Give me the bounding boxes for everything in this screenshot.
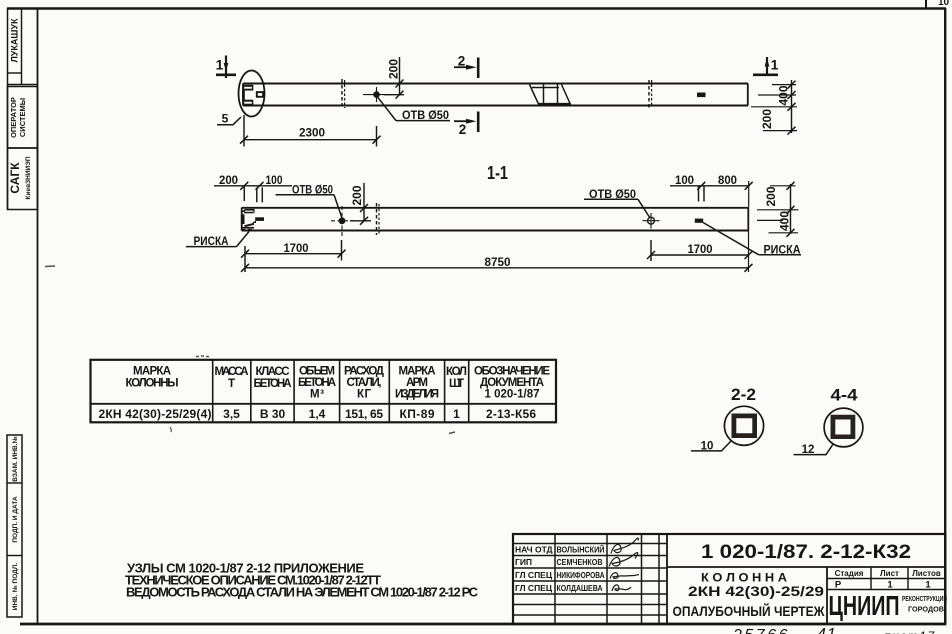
svg-text:25766: 25766 xyxy=(732,627,790,634)
svg-text:1700: 1700 xyxy=(688,242,713,256)
svg-text:БЕТОНА: БЕТОНА xyxy=(254,378,292,390)
svg-text:КиевЗНИИЭП: КиевЗНИИЭП xyxy=(25,156,32,199)
svg-text:ИНВ. № ПОДЛ.: ИНВ. № ПОДЛ. xyxy=(12,563,19,611)
svg-text:41: 41 xyxy=(817,626,837,634)
svg-text:СТАЛИ,: СТАЛИ, xyxy=(347,377,382,389)
svg-text:ПОДП. И ДАТА: ПОДП. И ДАТА xyxy=(12,496,19,543)
svg-text:1-1: 1-1 xyxy=(487,163,508,183)
svg-text:200: 200 xyxy=(219,173,238,187)
svg-text:РАСХОД: РАСХОД xyxy=(344,366,384,378)
svg-text:12: 12 xyxy=(802,444,815,456)
svg-text:КОЛ: КОЛ xyxy=(446,366,467,378)
svg-text:151, 65: 151, 65 xyxy=(345,407,383,421)
svg-text:ВЕДОМОСТЬ РАСХОДА СТАЛИ НА: ВЕДОМОСТЬ РАСХОДА СТАЛИ НА ЭЛЕМЕНТ СМ 10… xyxy=(126,585,479,600)
svg-text:1,4: 1,4 xyxy=(309,407,326,421)
svg-text:2: 2 xyxy=(458,54,466,69)
svg-text:1: 1 xyxy=(453,407,460,421)
svg-text:Р: Р xyxy=(835,580,842,591)
svg-text:В 30: В 30 xyxy=(260,407,286,421)
svg-text:КОЛДАШЕВА: КОЛДАШЕВА xyxy=(557,583,603,593)
svg-text:МАССА: МАССА xyxy=(215,366,249,378)
svg-text:200: 200 xyxy=(350,185,364,205)
svg-text:ОБОЗНАЧЕНИЕ: ОБОЗНАЧЕНИЕ xyxy=(474,366,550,378)
svg-text:ОБЪЕМ: ОБЪЕМ xyxy=(299,366,335,378)
svg-text:ГЛ СПЕЦ: ГЛ СПЕЦ xyxy=(515,570,553,580)
svg-text:КОЛОННЫ: КОЛОННЫ xyxy=(126,378,179,390)
svg-text:ГОРОДОВ: ГОРОДОВ xyxy=(908,605,945,614)
svg-text:1: 1 xyxy=(771,57,779,73)
svg-text:2-13-К56: 2-13-К56 xyxy=(486,407,536,421)
svg-text:10: 10 xyxy=(701,441,714,453)
svg-text:ДОКУМЕНТА: ДОКУМЕНТА xyxy=(480,377,544,389)
svg-text:М³: М³ xyxy=(310,389,324,401)
svg-text:КЛАСС: КЛАСС xyxy=(256,366,290,378)
svg-text:1 020-1/87: 1 020-1/87 xyxy=(485,389,540,401)
svg-text:Т: Т xyxy=(228,378,235,390)
svg-text:ОТВ Ø50: ОТВ Ø50 xyxy=(292,183,333,197)
svg-text:200: 200 xyxy=(764,186,778,206)
svg-text:2КН 42(30)-25/29: 2КН 42(30)-25/29 xyxy=(688,583,824,599)
svg-text:КП-89: КП-89 xyxy=(400,407,435,421)
svg-text:800: 800 xyxy=(718,173,737,187)
svg-text:Листов: Листов xyxy=(912,569,941,578)
svg-text:ОПЕРАТОР: ОПЕРАТОР xyxy=(9,97,18,138)
svg-text:Лист: Лист xyxy=(880,569,899,578)
svg-text:1700: 1700 xyxy=(284,241,309,255)
svg-text:ЦНИИП: ЦНИИП xyxy=(829,590,900,621)
svg-text:Стадия: Стадия xyxy=(835,569,864,578)
svg-text:2: 2 xyxy=(459,122,467,137)
svg-text:1 020-1/87. 2-12-К32: 1 020-1/87. 2-12-К32 xyxy=(701,542,911,563)
svg-text:5: 5 xyxy=(222,112,229,126)
svg-text:3,5: 3,5 xyxy=(223,407,240,421)
svg-text:1: 1 xyxy=(925,580,931,591)
svg-text:2-2: 2-2 xyxy=(731,385,756,404)
svg-text:ОТВ Ø50: ОТВ Ø50 xyxy=(402,108,449,122)
svg-text:2КН 42(30)-25/29(4): 2КН 42(30)-25/29(4) xyxy=(99,407,212,421)
svg-text:100: 100 xyxy=(675,173,694,187)
svg-text:РИСКА: РИСКА xyxy=(764,243,801,257)
svg-text:СЕМЧЕНКОВ: СЕМЧЕНКОВ xyxy=(557,557,603,567)
svg-text:100: 100 xyxy=(266,173,283,187)
svg-text:ГЛ СПЕЦ: ГЛ СПЕЦ xyxy=(515,583,553,593)
svg-text:пист17: пист17 xyxy=(884,629,936,634)
svg-text:ГИП: ГИП xyxy=(515,557,532,567)
svg-text:400: 400 xyxy=(777,85,791,105)
svg-text:ВОЛЫНСКИЙ: ВОЛЫНСКИЙ xyxy=(557,544,605,555)
svg-text:400: 400 xyxy=(778,211,792,231)
svg-text:ВЗАМ. ИНВ.№: ВЗАМ. ИНВ.№ xyxy=(12,436,19,482)
svg-text:10: 10 xyxy=(938,0,950,8)
svg-text:РЕКОНСТРУКЦИИ: РЕКОНСТРУКЦИИ xyxy=(902,596,947,603)
svg-text:200: 200 xyxy=(760,109,774,129)
svg-text:САГК: САГК xyxy=(8,162,22,194)
svg-text:1: 1 xyxy=(887,580,893,591)
svg-text:МАРКА: МАРКА xyxy=(399,366,436,378)
svg-text:АРМ: АРМ xyxy=(406,377,428,389)
svg-text:200: 200 xyxy=(387,59,401,79)
svg-text:ОТВ Ø50: ОТВ Ø50 xyxy=(589,187,636,201)
svg-text:ШТ: ШТ xyxy=(449,378,464,390)
svg-text:ЛУКАШУК: ЛУКАШУК xyxy=(10,18,20,63)
svg-text:РИСКА: РИСКА xyxy=(194,234,229,248)
svg-text:1: 1 xyxy=(216,57,224,73)
svg-text:КГ: КГ xyxy=(357,389,371,401)
svg-text:2300: 2300 xyxy=(299,126,325,140)
svg-text:4-4: 4-4 xyxy=(831,386,859,405)
svg-text:ОПАЛУБОЧНЫЙ ЧЕРТЕЖ: ОПАЛУБОЧНЫЙ ЧЕРТЕЖ xyxy=(673,602,825,619)
svg-text:БЕТОНА: БЕТОНА xyxy=(298,377,336,389)
svg-text:НИКИФОРОВА: НИКИФОРОВА xyxy=(557,570,605,580)
svg-text:ИЗДЕЛИЯ: ИЗДЕЛИЯ xyxy=(395,389,439,401)
svg-text:МАРКА: МАРКА xyxy=(133,366,171,378)
svg-text:СИСТЕМЫ: СИСТЕМЫ xyxy=(18,98,27,137)
svg-text:НАЧ ОТД: НАЧ ОТД xyxy=(515,545,553,555)
svg-text:8750: 8750 xyxy=(485,255,511,269)
